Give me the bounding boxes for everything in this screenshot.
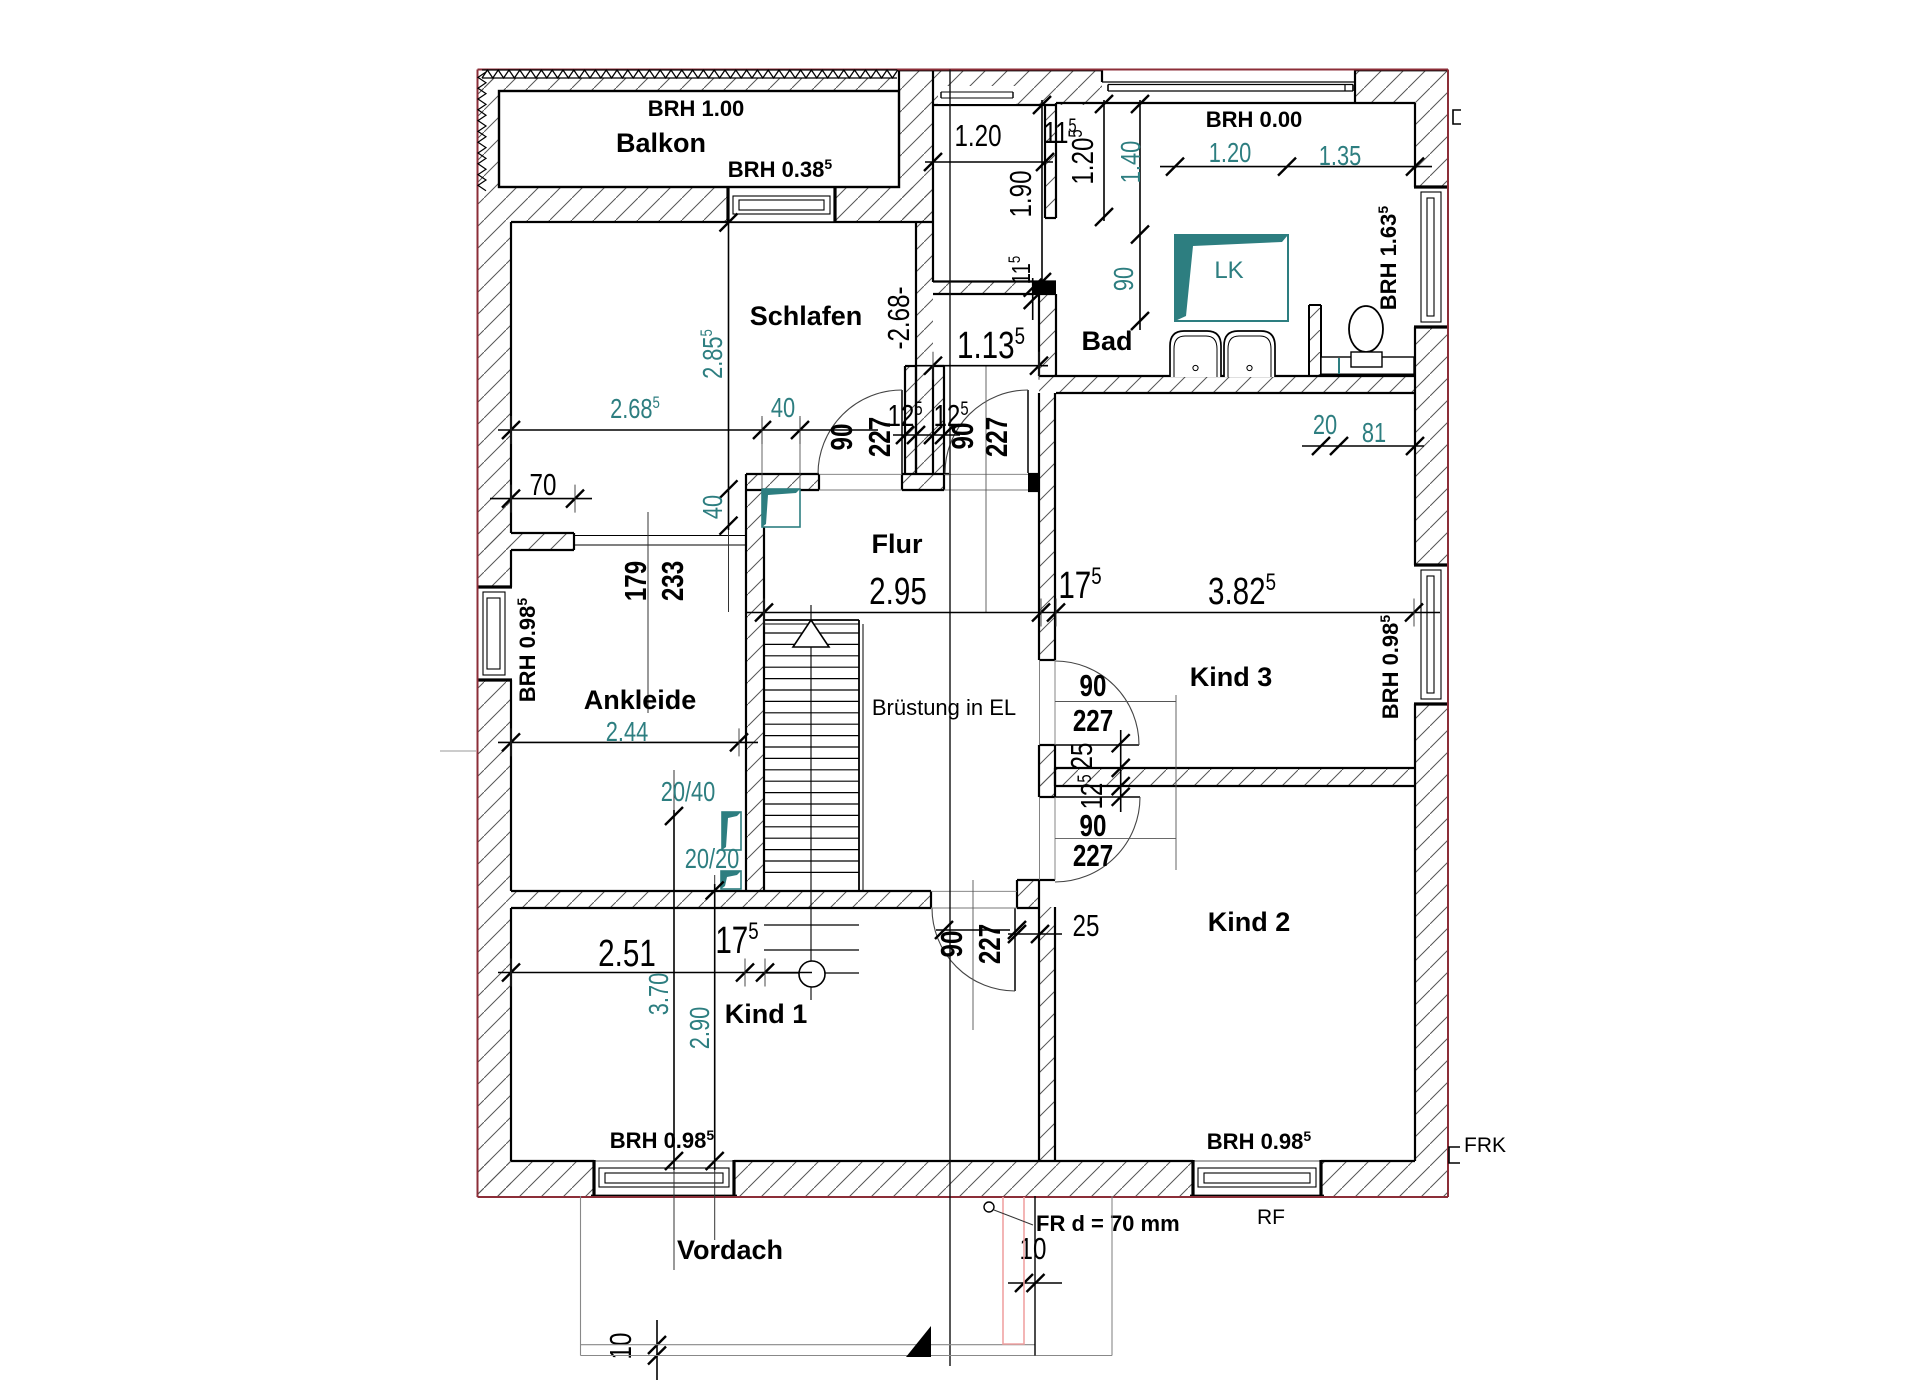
dim Kind3 door 25/12.5 <box>1112 730 1130 812</box>
door Kind1 swing arc <box>932 908 1015 991</box>
wall Flur north left segment <box>746 474 819 490</box>
wall top band above shaft <box>933 70 1102 105</box>
svg-text:1.20: 1.20 <box>1209 137 1251 168</box>
wall Schlafen east / shaft west <box>916 222 933 474</box>
wall outer right lower (Kind3/Kind2) <box>1415 704 1448 1161</box>
wall Flur north middle segment <box>902 474 944 490</box>
svg-text:Vordach: Vordach <box>677 1235 783 1265</box>
wall face lines across Kind1 door opening <box>931 890 1017 892</box>
wall outer right between Bad and Kind3 windows <box>1415 327 1448 565</box>
site boundary red line bottom <box>478 1196 1449 1198</box>
dim stub 11.5 vertical <box>1024 278 1042 320</box>
wall Kind3/Kind2 <box>1039 768 1415 786</box>
svg-text:BRH 0.985: BRH 0.985 <box>610 1127 715 1153</box>
svg-text:1.40: 1.40 <box>1115 141 1146 183</box>
Vordach outline <box>580 1196 582 1356</box>
wall corridor east (Bad entry) <box>1039 294 1056 376</box>
wall stub end cap solid <box>1032 281 1056 294</box>
window shaft north small <box>938 86 1016 104</box>
svg-text:20/40: 20/40 <box>661 776 716 807</box>
svg-text:BRH 1.635: BRH 1.635 <box>1375 206 1401 311</box>
bottom wall outer face lines across windows <box>591 1194 737 1196</box>
svg-text:BRH 0.985: BRH 0.985 <box>514 598 540 703</box>
wall outer bottom left segment <box>478 1161 594 1196</box>
bracket mark FRK <box>1449 1147 1460 1163</box>
door Schlafen swing arc <box>818 390 902 474</box>
wall edge outlines <box>511 71 1448 1162</box>
column 20/20 in Ankleide <box>721 871 741 889</box>
window Schlafen north (in Balkon wall) <box>728 187 835 222</box>
extension line x=973 (Kind1 door) <box>972 880 974 1030</box>
svg-text:20/20: 20/20 <box>685 843 740 874</box>
wall outer top band above Balkon <box>478 78 899 91</box>
stairs with up arrow and start circle <box>764 605 863 1000</box>
entrance triangle marker <box>906 1326 931 1357</box>
svg-text:BRH 0.00: BRH 0.00 <box>1206 107 1303 132</box>
svg-text:227: 227 <box>862 417 897 457</box>
svg-text:70: 70 <box>530 467 557 502</box>
bracket mark top right <box>1453 110 1461 124</box>
dim Vordach 10 right <box>1008 1274 1062 1292</box>
window Kind1 south BRH 0.98 <box>594 1161 734 1196</box>
door Kind3 swing arc <box>1055 661 1139 745</box>
svg-text:-2.68-: -2.68- <box>881 286 916 349</box>
dim 70 left <box>490 485 592 513</box>
extension line x=648 (179/233) <box>647 512 649 713</box>
wall Schlafen/Ankleide <box>478 533 574 550</box>
dim 2.85/40 vertical ticks <box>720 214 738 535</box>
svg-text:Kind 2: Kind 2 <box>1208 907 1291 937</box>
wall stub between Kind3 and Kind2 doors <box>1039 745 1055 797</box>
FR downpipe red box <box>1003 1197 1024 1344</box>
wall stairwell west <box>746 474 764 891</box>
axis line vertical centre <box>949 70 951 1367</box>
wall stub beside washbasins <box>1309 305 1321 375</box>
svg-text:1.90: 1.90 <box>1003 170 1038 217</box>
door Kind1 leaf <box>1014 908 1016 991</box>
extension lines door dims Kind3/Kind2 <box>1175 695 1177 870</box>
washbasin 2 <box>1224 331 1275 377</box>
dim shaft 1.20-5 <box>1095 95 1113 226</box>
svg-text:3.70: 3.70 <box>643 973 674 1015</box>
extension line x=714.7 (2.90 dim) <box>714 875 716 1240</box>
wall block right of Kind1 door <box>1017 880 1040 908</box>
svg-text:2.855: 2.855 <box>697 329 728 379</box>
Balkon floor slab <box>499 91 899 187</box>
site boundary red line top <box>478 69 1449 71</box>
svg-text:90: 90 <box>945 423 980 450</box>
column 40/40 at Flur corner <box>762 489 800 527</box>
svg-text:Schlafen: Schlafen <box>750 301 863 331</box>
extension lines 40-dim to column <box>761 418 763 489</box>
wall shaft east thin 11.5 <box>1045 105 1056 218</box>
rooflight LK <box>1175 235 1288 321</box>
site boundary red line left <box>477 70 479 1198</box>
door Kind3 leaf <box>1055 744 1139 746</box>
wall outer top-left strip beside Balkon <box>478 78 499 187</box>
svg-text:179: 179 <box>618 561 653 601</box>
dim Bad 1.40/90 <box>1131 95 1149 330</box>
svg-text:LK: LK <box>1214 257 1243 284</box>
wall stub below shaft <box>933 282 1032 294</box>
svg-text:1.205: 1.205 <box>1065 129 1100 184</box>
svg-text:BRH 0.385: BRH 0.385 <box>728 156 833 182</box>
svg-text:233: 233 <box>655 561 690 601</box>
svg-text:1.35: 1.35 <box>1319 140 1361 171</box>
wall Flur/Kind3 <box>1039 393 1055 660</box>
svg-text:25: 25 <box>1073 908 1100 943</box>
dim 25 at Kind1 door <box>1008 925 1062 943</box>
leader line left wall <box>440 750 476 752</box>
wall Bad south <box>1039 376 1415 393</box>
dim Bad top 1.20/1.35 <box>1160 158 1432 176</box>
dim main 2.95/17.5/3.82 <box>745 599 1440 627</box>
dim 2.90 vertical ticks <box>706 882 724 1171</box>
extension line x=674 (3.70 dim) <box>673 770 675 1270</box>
window Kind2 south BRH 0.98 <box>1193 1161 1321 1196</box>
svg-text:RF: RF <box>1257 1206 1285 1229</box>
svg-text:90: 90 <box>1080 668 1107 703</box>
svg-text:227: 227 <box>979 417 1014 457</box>
svg-text:227: 227 <box>1073 838 1113 873</box>
Vordach right edge / FR line <box>1034 1196 1036 1356</box>
wall stub beside washbasins edges <box>1308 305 1310 375</box>
svg-text:81: 81 <box>1362 417 1386 448</box>
svg-text:2.95: 2.95 <box>869 571 927 613</box>
svg-text:Brüstung in EL: Brüstung in EL <box>872 695 1016 720</box>
washbasin 1 <box>1170 331 1221 377</box>
wall band between Balkon and Schlafen right part <box>835 187 933 222</box>
WC toilet <box>1349 306 1383 352</box>
wall outer bottom right segment <box>1321 1161 1448 1196</box>
door Kind2 swing arc <box>1055 797 1140 882</box>
dim Vordach 10 left <box>648 1320 666 1380</box>
window Kind3 east BRH 0.98 <box>1415 565 1448 704</box>
dim corridor 1.13 <box>917 352 1048 380</box>
door Bad swing arc <box>945 390 1028 473</box>
svg-text:Bad: Bad <box>1081 326 1132 356</box>
wall niche stub 12.5 (wall B) <box>933 366 944 474</box>
extension line x=728.5 (2.85/40 dims) <box>728 222 730 612</box>
wall top-right corner block <box>1355 70 1448 103</box>
dim shaft height 1.90 <box>1033 96 1051 291</box>
door Schlafen leaf <box>901 390 903 474</box>
svg-text:Kind 3: Kind 3 <box>1190 662 1273 692</box>
svg-text:FR d = 70 mm: FR d = 70 mm <box>1036 1211 1180 1236</box>
wall face lines across Kind3/Kind2 door openings <box>1039 660 1041 745</box>
svg-text:FRK: FRK <box>1464 1134 1506 1157</box>
door Kind2 leaf <box>1055 796 1140 798</box>
svg-text:Kind 1: Kind 1 <box>725 999 808 1029</box>
window Bad east BRH 1.63 <box>1415 187 1448 327</box>
wall outer right upper (Bad) <box>1415 103 1448 187</box>
wall outer left lower (Ankleide/Kind1) <box>478 680 511 1196</box>
Balkon railing zigzag left <box>478 72 486 191</box>
FR circle and leader <box>984 1202 994 1212</box>
svg-text:BRH 0.985: BRH 0.985 <box>1377 615 1403 720</box>
svg-text:Flur: Flur <box>872 529 923 559</box>
svg-text:25: 25 <box>1064 743 1099 770</box>
wall corner block between Balkon and shaft <box>899 70 933 222</box>
svg-text:227: 227 <box>1073 703 1113 738</box>
wall Ankleide/Kind1 <box>511 891 931 908</box>
window Bad north BRH 0.00 <box>1102 81 1355 83</box>
svg-text:90: 90 <box>1108 267 1139 291</box>
svg-text:2.90: 2.90 <box>684 1007 715 1049</box>
dim Kind3 20/81 <box>1302 437 1424 455</box>
WC half wall / cistern shelf <box>1321 357 1414 375</box>
extension line x=986 (Bad door) <box>985 366 987 612</box>
dim Schlafen width 2.68/40 <box>498 416 878 444</box>
wall band between Balkon and Schlafen left part <box>478 187 728 222</box>
svg-text:1.20: 1.20 <box>954 118 1001 153</box>
wall face lines across Flur door openings <box>819 473 902 475</box>
window Ankleide west BRH 0.98 <box>478 587 511 680</box>
wall niche stub 12.5 (wall A Schlafen side) <box>905 366 916 474</box>
dim shaft 1.20 <box>924 153 1054 171</box>
svg-text:40: 40 <box>771 392 795 423</box>
dim niche 12.5/12.5 <box>893 426 960 444</box>
svg-text:20: 20 <box>1313 409 1337 440</box>
svg-text:90: 90 <box>824 424 859 451</box>
wall outer bottom middle segment <box>734 1161 1193 1196</box>
column 20/40 in Ankleide <box>722 812 741 850</box>
svg-text:BRH 0.985: BRH 0.985 <box>1207 1128 1312 1154</box>
svg-text:227: 227 <box>972 924 1007 964</box>
svg-text:2.685: 2.685 <box>610 393 660 424</box>
door Bad leaf <box>1027 390 1029 473</box>
dim 2.51 / 17.5 bottom <box>498 959 812 987</box>
cased opening Schlafen-Ankleide double lines <box>574 535 746 537</box>
svg-text:BRH 1.00: BRH 1.00 <box>648 96 745 121</box>
dim Kind1 door 90 <box>935 921 1026 939</box>
svg-text:Ankleide: Ankleide <box>584 685 697 715</box>
wall Kind1/Kind2 <box>1039 907 1055 1161</box>
dim Ankleide 2.44 <box>498 728 758 756</box>
Balkon railing zigzag top <box>482 70 898 78</box>
wall outer left upper (Schlafen) <box>478 222 511 587</box>
dim 3.70 vertical ticks <box>665 807 683 1170</box>
svg-text:90: 90 <box>934 931 969 958</box>
wall Flur north-east corner block <box>1028 474 1039 491</box>
svg-text:2.44: 2.44 <box>606 716 649 747</box>
svg-text:Balkon: Balkon <box>616 128 706 158</box>
svg-text:2.51: 2.51 <box>598 933 656 975</box>
site boundary red line right <box>1447 70 1449 1198</box>
svg-text:40: 40 <box>697 495 728 519</box>
